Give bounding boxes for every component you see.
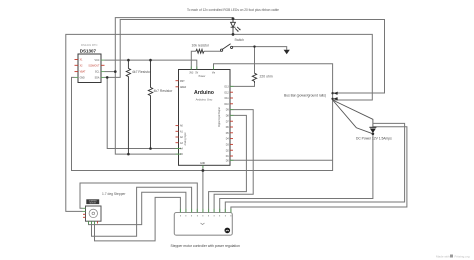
svg-text:Stepper motor controller with: Stepper motor controller with power regu…	[171, 244, 240, 248]
DS1307 pin GND	[75, 76, 79, 78]
svg-text:Digital Input/Output: Digital Input/Output	[218, 107, 221, 127]
bus bar junction arrows	[333, 92, 337, 95]
DS1307 pin VBAT	[75, 71, 79, 73]
svg-text:RST: RST	[180, 81, 185, 83]
wire: bus bar diagonal 1 to DC power point	[333, 100, 373, 127]
svg-text:Made with: Made with	[436, 255, 450, 259]
wire: bus bar diagonal 2 (label leader)	[333, 100, 373, 134]
DS1307 pin SCL	[101, 71, 105, 73]
DC power input symbol	[369, 126, 376, 128]
resistor R4 10k	[196, 49, 204, 53]
wire: LED cathode rail + left drop to stepper	[66, 34, 373, 211]
controller pin marks	[180, 215, 231, 217]
Arduino digital pins D13-D0	[203, 86, 234, 168]
resistor R2 4k7 pull-up SDA	[148, 60, 152, 148]
controller pins	[180, 209, 231, 213]
DS1307 pin VCC	[101, 59, 105, 61]
svg-text:Power: Power	[199, 75, 206, 78]
svg-text:Switch: Switch	[235, 38, 245, 42]
svg-text:3V3: 3V3	[189, 72, 194, 74]
wire: D8 to controller pin 6	[209, 115, 247, 212]
svg-text:GND: GND	[80, 78, 85, 80]
wire: switch output down through 220 ohm to D13	[230, 47, 255, 87]
DS1307 U1	[75, 43, 105, 82]
wire: D0 to bus vertical	[230, 159, 333, 161]
svg-text:VBAT: VBAT	[80, 71, 86, 74]
Arduino pin 3V3	[190, 67, 192, 70]
stepper pins bottom	[88, 221, 90, 224]
wire: stepper bottom pin 2 to controller pin 3	[92, 187, 192, 236]
LED D1	[231, 19, 241, 35]
wire: switch right post to down arrow	[233, 47, 287, 50]
Arduino pin RST	[176, 80, 179, 82]
svg-text:Arduino Uno: Arduino Uno	[196, 98, 213, 102]
wire: DS1307 GND down and ground line to bus bar	[72, 64, 333, 171]
Arduino pin Vin	[213, 67, 215, 70]
svg-text:SDA: SDA	[95, 77, 100, 80]
svg-text:10k resistor: 10k resistor	[192, 44, 210, 48]
DS1307 pin X2	[75, 64, 79, 66]
resistor R1 4k7 pull-up SCL	[126, 60, 130, 154]
stepper motor controller U3	[174, 209, 232, 235]
svg-text:MOTOR: MOTOR	[90, 203, 97, 205]
wire: SCL row from DS1307	[105, 71, 116, 73]
wire: stepper bottom pin 3 to controller pin 1	[95, 197, 181, 241]
svg-text:AREF: AREF	[180, 86, 187, 89]
wire: +5V rail from DS1307 VCC to Arduino 5V	[105, 60, 197, 69]
controller logo	[225, 228, 231, 234]
wire: DC distribution to controller pin 9	[225, 123, 404, 212]
resistor R3 220 ohm	[252, 73, 256, 83]
svg-text:DC Power 12V 1.5Amps: DC Power 12V 1.5Amps	[356, 136, 392, 140]
svg-text:SCL: SCL	[95, 72, 100, 74]
svg-text:Fritzing.org: Fritzing.org	[455, 255, 470, 259]
watermark	[436, 255, 470, 259]
Arduino analog pins A0-A5	[176, 126, 182, 155]
svg-text:To each of 12x controlled RGB: To each of 12x controlled RGB LEDs on 20…	[187, 8, 279, 12]
wire: top bus line 2 (SDA big loop to right side)	[105, 20, 385, 94]
svg-text:D12: D12	[224, 92, 229, 94]
wire: DC distribution to controller pin 10	[231, 127, 407, 213]
svg-text:Bus Bar (power/ground rails): Bus Bar (power/ground rails)	[284, 94, 326, 98]
svg-text:D13: D13	[224, 87, 229, 89]
wire: DC power down to controller pin 8	[220, 134, 373, 213]
DS1307 pin SQW/OUT	[101, 64, 105, 66]
svg-text:220 ohm: 220 ohm	[260, 75, 273, 79]
svg-text:Analog Input: Analog Input	[184, 132, 187, 145]
svg-text:GND: GND	[200, 163, 205, 165]
wire: stepper coil A to controller pin 4	[80, 183, 197, 213]
switch S1	[221, 44, 233, 52]
controller center mark	[201, 223, 205, 225]
svg-text:D10: D10	[224, 104, 229, 106]
svg-text:4k7 Resistor: 4k7 Resistor	[132, 70, 152, 74]
wire: 3V3 riser to 10k resistor	[191, 51, 220, 69]
DS1307 pin SDA	[101, 76, 105, 78]
stepper motor M1	[83, 199, 102, 224]
svg-text:4k7 Resistor: 4k7 Resistor	[154, 89, 174, 93]
stepper pins left	[83, 207, 86, 209]
wire: SDA drop to A4	[107, 77, 181, 148]
wire: Arduino GND down to controller pin 5	[202, 165, 204, 212]
ground arrow (switch branch)	[284, 50, 290, 54]
DS1307 pin X1	[75, 59, 79, 61]
svg-text:VCC: VCC	[95, 60, 100, 62]
svg-text:DS1307: DS1307	[80, 49, 97, 54]
svg-text:5V: 5V	[195, 72, 198, 74]
svg-text:DS1231 RTC: DS1231 RTC	[81, 43, 98, 47]
wire: top bus line 1 (SCL to LED anode)	[115, 18, 233, 155]
Arduino pin 5V	[196, 67, 198, 70]
svg-text:Arduino: Arduino	[194, 90, 214, 96]
Arduino U2	[176, 67, 231, 166]
wire: stepper bottom pin 1 to controller pin 2	[89, 192, 186, 224]
svg-text:1.7 deg Stepper: 1.7 deg Stepper	[102, 192, 126, 196]
svg-text:SQW/OUT: SQW/OUT	[88, 65, 100, 67]
Arduino pin AREF	[176, 86, 179, 88]
wire: D9 to controller pin 7	[214, 110, 253, 213]
